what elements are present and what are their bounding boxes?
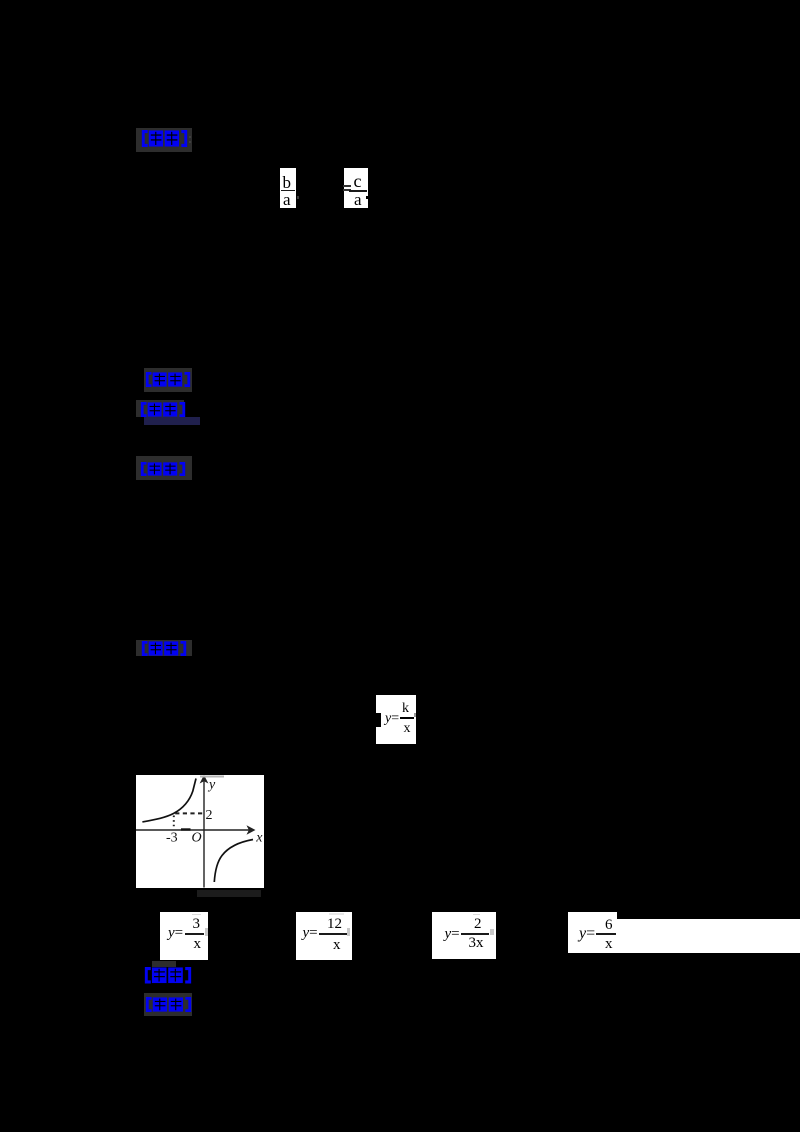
svg-text:x: x [255,830,263,845]
svg-text:-3: -3 [166,831,178,846]
svg-text:y: y [207,778,216,793]
svg-text:2: 2 [206,808,213,823]
svg-text:O: O [192,831,202,846]
